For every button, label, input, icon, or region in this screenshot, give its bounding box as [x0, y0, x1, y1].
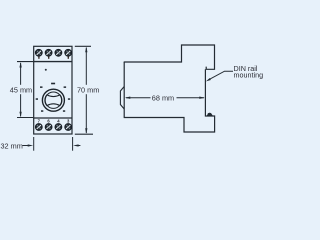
front view outer case outline [34, 46, 72, 134]
side view body outline [123, 62, 125, 118]
bottom terminal block divider line [33, 117, 72, 119]
dimension 45 mm line [20, 63, 22, 116]
dimension 68 mm line [126, 97, 204, 99]
terminal screw bottom 4 [65, 124, 72, 131]
dimension 70 mm extension line bottom [75, 133, 93, 135]
svg-text:68 mm: 68 mm [152, 93, 174, 102]
DIN rail mounting leader arrow [206, 78, 211, 81]
top terminal block divider line [33, 61, 72, 63]
terminal screw bottom 1 [35, 124, 42, 131]
terminal screw top 2 [45, 49, 52, 56]
svg-text:mounting: mounting [234, 70, 264, 79]
dimension 45 mm arrow up [19, 62, 21, 68]
dimension 70 mm line [85, 48, 87, 133]
dimension 32 mm left arrow [22, 144, 33, 146]
timer dial inner circle [45, 92, 61, 108]
pin mark under screw 4 [68, 56, 69, 58]
terminal screw top 1 [35, 49, 42, 56]
dial knob slot [45, 95, 62, 106]
indicator dot [45, 69, 47, 71]
svg-text:45 mm: 45 mm [10, 85, 32, 94]
dimension 45 mm arrow down [19, 112, 21, 118]
dial tick lower-left [41, 110, 43, 112]
dial tick top [51, 83, 55, 85]
side view back face and bottom profile [124, 69, 215, 132]
dial tick left [36, 98, 38, 100]
dial tick right [68, 98, 70, 100]
dimension 70 mm arrow down [85, 128, 87, 134]
knob bump on front face [120, 87, 124, 110]
dimension 45 mm extension line top [17, 61, 33, 63]
dimension 32 mm extension line left [33, 137, 35, 151]
dimension 32 mm right arrow [73, 144, 80, 146]
terminal screw top 4 [65, 49, 72, 56]
dimension 68 mm arrow right [199, 97, 205, 99]
DIN clip latch [207, 113, 213, 116]
dimension 68 mm arrow left [125, 97, 131, 99]
dimension 70 mm arrow up [85, 47, 87, 53]
svg-text:32 mm: 32 mm [1, 141, 23, 150]
terminal screw bottom 2 [45, 124, 52, 131]
dial tick upper-right [64, 86, 67, 88]
dimension 32 mm extension line right [72, 137, 74, 151]
svg-text:70 mm: 70 mm [77, 85, 99, 94]
side view top and right profile [124, 45, 215, 69]
timer dial outer circle [42, 89, 64, 111]
DIN rail mounting leader line [208, 71, 233, 80]
terminal screw bottom 3 [55, 124, 62, 131]
dial tick lower-right [63, 110, 65, 112]
dial tick upper-left [40, 86, 43, 88]
pin mark under screw 2 [48, 56, 49, 58]
dimension 70 mm extension line top [75, 45, 91, 47]
dimension 45 mm extension line bottom [17, 117, 33, 119]
terminal screw top 3 [55, 49, 62, 56]
pin mark under screw 1 [38, 56, 39, 58]
